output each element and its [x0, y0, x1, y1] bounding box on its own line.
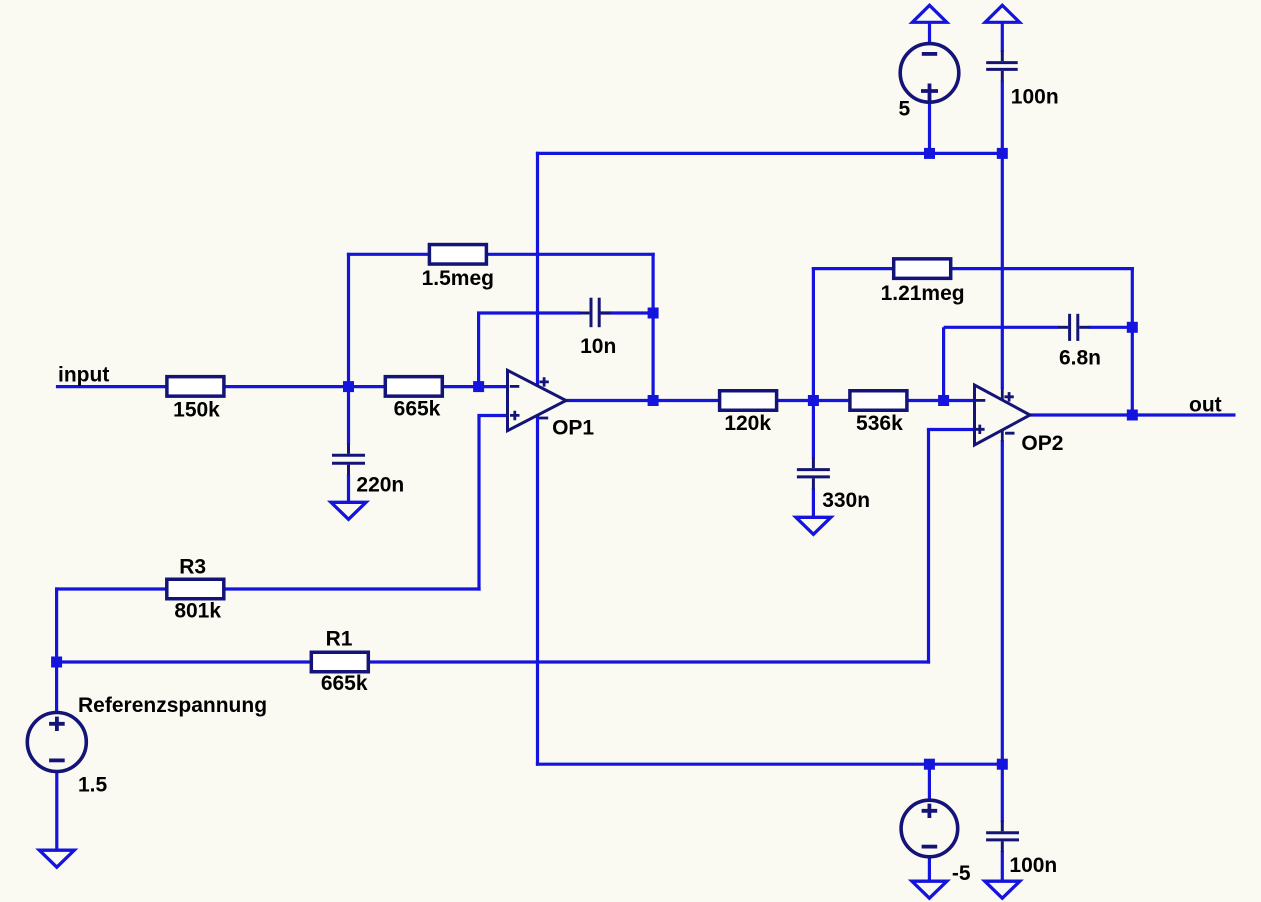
op-amp OP1 non-inverting input mark [510, 411, 520, 421]
wire 330n top stem [812, 401, 815, 459]
wire 1.21meg left lead [812, 267, 895, 270]
svg-text:1.21meg: 1.21meg [881, 282, 965, 305]
svg-text:100n: 100n [1009, 854, 1057, 877]
op-amp OP2 non-inverting input mark [975, 425, 985, 434]
wire +5 source to top rail [928, 102, 931, 154]
voltage source V -5 [901, 800, 958, 857]
wire 1.5meg left lead [347, 253, 430, 256]
wire bottom 100n stem from rail [1001, 764, 1004, 822]
wire VCC arrow stem to 100n cap [1001, 22, 1004, 52]
node 100n top rail junction [997, 148, 1008, 159]
op-amp OP1 positive supply pin [539, 377, 548, 386]
svg-text:330n: 330n [822, 489, 870, 512]
ground below Referenzspannung [39, 850, 74, 867]
wire 1.21meg right lead [951, 267, 1134, 270]
wire +5 arrow stem [928, 22, 931, 44]
node OP2 inverting junction [938, 395, 949, 406]
wire R1 right lead [369, 660, 930, 663]
node -5 bottom rail junction [924, 759, 935, 770]
voltage source V 5 [900, 44, 959, 103]
op-amp OP2 negative supply pin [1002, 429, 1014, 442]
svg-text:150k: 150k [173, 399, 220, 422]
svg-text:5: 5 [899, 98, 911, 121]
node +5 top rail junction [924, 148, 935, 159]
op-amp OP2 inverting input mark [976, 399, 986, 402]
voltage source Referenzspannung 1.5 [27, 713, 86, 772]
wire OP2 output to out [1028, 413, 1236, 416]
svg-text:6.8n: 6.8n [1059, 346, 1101, 369]
wire vertical 1.21meg/6.8n to out node [1131, 267, 1134, 415]
node 10n feedback junction [648, 308, 659, 319]
svg-text:665k: 665k [394, 397, 441, 420]
wire OP2 non-inverting stub [927, 428, 975, 431]
wire node B up to 1.21meg row [812, 267, 815, 401]
resistor 1.21meg [894, 259, 951, 279]
svg-text:665k: 665k [321, 672, 368, 695]
wire OP1 positive supply drop [536, 152, 539, 386]
capacitor C 330n [797, 458, 830, 490]
wire -5 source to ground [928, 856, 931, 881]
capacitor C 6.8n [1058, 314, 1090, 341]
node 100n bottom rail junction [997, 759, 1008, 770]
wire 665k to OP1 inverting input [443, 385, 508, 388]
wire left column R3 to R1 node [55, 587, 58, 662]
wire bottom 100n to ground [1001, 851, 1004, 881]
svg-text:R1: R1 [326, 628, 353, 651]
svg-text:536k: 536k [856, 412, 903, 435]
op-amp OP1 negative supply pin [539, 417, 548, 420]
wire 10n branch down to inverting node [477, 313, 480, 387]
svg-text:801k: 801k [174, 600, 221, 623]
node OP1 output junction [648, 395, 659, 406]
wire bottom supply rail [536, 763, 1002, 766]
wire 6.8n right lead [1089, 326, 1133, 329]
ground below 330n [796, 517, 831, 534]
resistor 150k [167, 377, 224, 397]
svg-text:out: out [1189, 394, 1222, 417]
svg-text:OP1: OP1 [552, 416, 594, 439]
svg-text:-5: -5 [952, 862, 971, 885]
wire 6.8n left lead [944, 326, 1059, 329]
node 6.8n feedback junction [1127, 322, 1138, 333]
resistor R3 801k [167, 579, 224, 599]
wire R1 left lead [57, 660, 312, 663]
resistor 536k [850, 391, 907, 411]
wire OP1 non-inverting stub [477, 414, 507, 417]
power arrow VCC+ above 100n [985, 5, 1020, 22]
wire 10n left lead [477, 311, 580, 314]
wire 10n right lead to node [599, 311, 654, 314]
wire OP2 negative supply drop [1001, 440, 1004, 766]
ground below bottom 100n [985, 881, 1020, 898]
op-amp OP2 [975, 385, 1031, 445]
wire node A up to 1.5meg row [347, 253, 350, 387]
wire R3 left lead [55, 587, 167, 590]
wire input to 150k [56, 385, 166, 388]
svg-text:10n: 10n [580, 335, 616, 358]
op-amp OP2 positive supply pin [1002, 389, 1014, 402]
wire top supply rail [536, 152, 1002, 155]
wire 6.8n branch down to OP2 inverting node [942, 327, 945, 400]
wire 150k to 665k through node A [225, 385, 386, 388]
svg-text:1.5: 1.5 [78, 774, 108, 797]
wire 1.5meg right lead [486, 253, 655, 256]
svg-text:1.5meg: 1.5meg [422, 267, 494, 290]
wire R3 right lead [224, 587, 480, 590]
capacitor C 100n bottom [986, 821, 1019, 852]
resistor 665k [385, 377, 442, 397]
wire R1 vertical up to OP2 plus [927, 430, 930, 664]
wire 220n top stem [347, 387, 350, 445]
svg-text:R3: R3 [179, 556, 206, 579]
node OP2 output junction [1127, 410, 1138, 421]
node 120k/536k/330n junction [808, 395, 819, 406]
wire node to Referenzspannung source [55, 662, 58, 713]
resistor R1 665k [311, 652, 368, 672]
wire 330n bottom stem to ground [812, 488, 815, 518]
capacitor C 220n [332, 443, 365, 475]
wire vertical 1.5meg/10n to OP1 output node [651, 253, 654, 401]
node OP1 inverting junction [473, 381, 484, 392]
wire 536k to OP2 inverting input [908, 399, 975, 402]
wire R3 vertical up to OP1 plus [477, 416, 480, 591]
capacitor C 10n [579, 298, 611, 328]
svg-text:input: input [58, 363, 109, 386]
wire OP1 negative supply drop [536, 415, 539, 765]
ground below 220n [331, 502, 366, 519]
op-amp OP1 [508, 370, 567, 430]
wire 220n bottom stem to ground [347, 474, 350, 503]
svg-text:Referenzspannung: Referenzspannung [78, 694, 267, 717]
node input junction [343, 381, 354, 392]
svg-text:OP2: OP2 [1021, 432, 1063, 455]
svg-text:120k: 120k [724, 412, 771, 435]
resistor 1.5meg [429, 245, 486, 264]
resistor 120k [720, 391, 777, 411]
ground below -5 source [912, 881, 947, 898]
wire 120k to 536k [777, 399, 851, 402]
capacitor C 100n top [986, 51, 1018, 82]
wire -5 source top stem [928, 764, 931, 801]
wire OP1 output to 120k [564, 399, 720, 402]
svg-text:100n: 100n [1011, 85, 1059, 108]
node R3/R1/reference junction [51, 657, 62, 668]
op-amp OP1 inverting input mark [510, 385, 520, 388]
wire 100n cap to top rail and OP2 positive supply [1001, 81, 1004, 390]
wire Referenzspannung source to ground [55, 771, 58, 850]
power arrow VCC+ above 5 source [912, 5, 947, 22]
svg-text:220n: 220n [356, 473, 404, 496]
